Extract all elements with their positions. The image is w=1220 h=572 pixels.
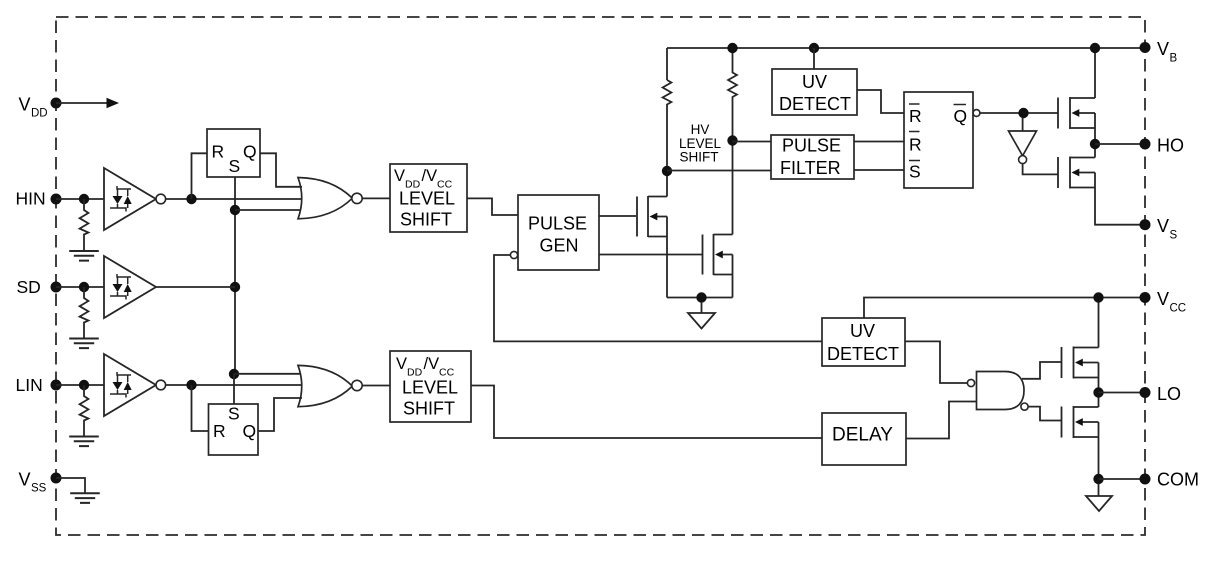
svg-text:DD: DD xyxy=(31,108,48,120)
wire M1 drain xyxy=(666,171,668,197)
op-amp input buffer HIN xyxy=(104,168,166,230)
svg-text:V: V xyxy=(1157,216,1169,236)
wire NOR1 bottom input xyxy=(235,209,301,211)
wire DELAY to NAND xyxy=(906,402,977,439)
wire LS2 to DELAY xyxy=(471,386,822,439)
transistor Q3 (HO high NMOS) xyxy=(1058,97,1095,129)
node trunk-SD junction xyxy=(230,282,240,292)
wire M2 source xyxy=(732,275,734,298)
node HIN buffer junction xyxy=(186,194,196,204)
resistor R1 (set level shift) xyxy=(663,80,672,171)
svg-text:SHIFT: SHIFT xyxy=(403,399,455,419)
svg-text:SD: SD xyxy=(17,277,41,297)
svg-text:HV: HV xyxy=(691,122,710,137)
ground LIN xyxy=(69,437,99,447)
gate NOR2 (LIN channel) xyxy=(298,365,362,406)
svg-text:PULSE: PULSE xyxy=(782,136,841,156)
node SD junction xyxy=(79,282,89,292)
svg-text:LIN: LIN xyxy=(16,375,43,395)
wire Q4 source to VS xyxy=(1095,188,1145,225)
node HO junction xyxy=(1090,139,1100,149)
svg-text:S: S xyxy=(1170,230,1178,242)
ground VSS xyxy=(70,493,100,503)
block LS2 VDD/VCC LEVEL SHIFT (low side) xyxy=(390,351,471,422)
svg-text:/V: /V xyxy=(424,355,440,373)
node COM pin xyxy=(1140,470,1200,490)
svg-text:LEVEL: LEVEL xyxy=(399,189,455,209)
node Qbar junction xyxy=(1018,108,1028,118)
wire PULSE FILTER R out xyxy=(854,141,904,143)
svg-text:GEN: GEN xyxy=(540,236,579,256)
wire SD buffer out xyxy=(156,286,235,288)
svg-text:V: V xyxy=(1157,289,1169,309)
wire HIN input xyxy=(56,198,104,200)
latch R1/S1 (RS latch upper) xyxy=(207,129,260,177)
svg-text:R: R xyxy=(212,142,225,162)
wire M2 drain xyxy=(732,141,734,235)
wire COM out xyxy=(1099,478,1146,480)
svg-text:SHIFT: SHIFT xyxy=(400,210,452,230)
svg-text:V: V xyxy=(396,355,407,373)
svg-text:R: R xyxy=(909,135,922,155)
wire LS1 to PULSE GEN xyxy=(467,198,518,215)
svg-text:Q: Q xyxy=(954,106,968,126)
svg-text:UV: UV xyxy=(850,321,875,341)
wire VCC rail xyxy=(864,298,1145,319)
svg-text:CC: CC xyxy=(1170,303,1187,315)
svg-text:B: B xyxy=(1170,53,1178,65)
wire Q3 source to HO xyxy=(1094,128,1096,144)
node COM junction xyxy=(1093,474,1103,484)
block PULSE FILTER xyxy=(771,135,854,179)
op-amp input buffer LIN xyxy=(104,354,166,416)
node VB-UV1 junction xyxy=(809,43,819,53)
latch R2/S2 (RS latch lower) xyxy=(209,404,259,456)
wire Q6 source to COM xyxy=(1098,437,1100,479)
node R2 bottom xyxy=(727,135,737,145)
flip-flop U4 (SR latch high side) xyxy=(904,92,980,188)
node SD pin xyxy=(17,277,62,297)
wire Q3 drain to VB xyxy=(1094,47,1096,98)
resistor HIN pulldown xyxy=(80,199,89,251)
resistor SD pulldown xyxy=(80,287,89,339)
block DELAY xyxy=(822,413,906,465)
wire UV2 to NAND xyxy=(905,341,967,383)
node HO pin xyxy=(1140,136,1185,156)
svg-text:/V: /V xyxy=(422,167,438,185)
svg-text:V: V xyxy=(19,95,31,115)
resistor R2 (reset level shift) xyxy=(728,48,737,141)
wire NOR1 out xyxy=(362,197,390,199)
transistor Q6 (LO low NMOS) xyxy=(1062,406,1099,438)
transistor M2 (reset pulse NMOS) xyxy=(703,234,733,275)
svg-text:R: R xyxy=(213,421,226,441)
wire NAND out low (bubbled) xyxy=(1028,407,1061,421)
node VSS pin xyxy=(19,470,62,495)
wire HO out xyxy=(1095,143,1145,145)
wire VB rail xyxy=(667,48,1145,80)
svg-text:SHIFT: SHIFT xyxy=(680,150,719,165)
svg-text:V: V xyxy=(19,470,31,490)
svg-text:FILTER: FILTER xyxy=(780,158,841,178)
ground SD xyxy=(69,339,99,349)
node LIN junction xyxy=(79,380,89,390)
svg-text:HIN: HIN xyxy=(16,189,46,209)
svg-text:R: R xyxy=(909,106,922,126)
gate NAND (LO driver logic) xyxy=(967,372,1028,411)
node HIN pin xyxy=(16,189,62,209)
svg-text:UV: UV xyxy=(802,72,827,92)
wire NAND out high xyxy=(1022,362,1062,379)
svg-text:COM: COM xyxy=(1157,470,1199,490)
wire Q6 drain to LO xyxy=(1098,393,1100,408)
block PULSE GEN xyxy=(518,195,599,270)
wire VDD arrow xyxy=(56,98,119,108)
svg-text:S: S xyxy=(229,156,241,176)
transistor Q5 (LO high NMOS) xyxy=(1062,347,1099,379)
wire HV source rail xyxy=(667,297,733,299)
ground COM xyxy=(1086,484,1112,511)
node VS pin xyxy=(1140,216,1178,242)
wire NOR2 top input xyxy=(234,373,301,375)
node VB-Q3 junction xyxy=(1090,43,1100,53)
wire PULSE GEN inhibit (bubbled) xyxy=(494,251,822,341)
node HV ground tap xyxy=(696,292,706,302)
svg-text:LEVEL: LEVEL xyxy=(402,378,458,398)
node LIN buffer junction xyxy=(186,380,196,390)
svg-text:S: S xyxy=(228,404,240,424)
svg-text:HO: HO xyxy=(1157,136,1184,156)
wire Q5 source to LO xyxy=(1098,378,1100,393)
svg-text:Q: Q xyxy=(243,142,257,162)
node R1 bottom xyxy=(662,166,672,176)
wire Qbar to HO driver xyxy=(980,112,1058,114)
wire PULSE FILTER S out xyxy=(854,169,904,171)
wire latch1 R input xyxy=(192,153,208,199)
node trunk-NOR1 tap xyxy=(230,205,240,215)
wire latch2 R input xyxy=(192,385,209,431)
wire Q5 drain to VCC xyxy=(1098,298,1100,348)
transistor M1 (set pulse NMOS) xyxy=(637,196,667,237)
wire PULSE GEN out set xyxy=(599,215,636,217)
gate NOR1 (HIN channel) xyxy=(298,178,362,219)
node LO pin xyxy=(1140,384,1182,404)
svg-text:DELAY: DELAY xyxy=(832,425,893,446)
ground HIN xyxy=(69,251,99,261)
wire latch2 Q to NOR2 xyxy=(258,398,302,431)
node LIN pin xyxy=(16,375,62,395)
transistor Q4 (HO low NMOS) xyxy=(1058,157,1095,189)
wire R line to PULSE FILTER xyxy=(733,141,772,143)
wire Q4 drain to HO xyxy=(1094,144,1096,158)
wire LIN input xyxy=(56,384,104,386)
node HIN junction xyxy=(79,194,89,204)
svg-text:SS: SS xyxy=(31,483,47,495)
wire LIN buffer out xyxy=(166,384,302,386)
wire LO out xyxy=(1099,392,1146,394)
node VB-R2 junction xyxy=(727,43,737,53)
block UV DETECT (low side) xyxy=(822,318,905,366)
resistor LIN pulldown xyxy=(80,385,89,437)
wire UV1 supply tap xyxy=(813,48,815,69)
node VCC pin xyxy=(1140,289,1187,315)
block UV DETECT (high side) xyxy=(772,69,857,115)
svg-text:LO: LO xyxy=(1157,384,1181,404)
wire S line to PULSE FILTER xyxy=(667,170,771,172)
wire NOR2 out xyxy=(362,385,390,387)
ground HV (substrate) xyxy=(688,302,715,329)
svg-text:S: S xyxy=(909,162,921,182)
block LS1 VDD/VCC LEVEL SHIFT (high side) xyxy=(390,164,467,232)
wire UV1 to latch Rbar xyxy=(857,90,904,113)
wire SD input xyxy=(56,286,104,288)
svg-text:Q: Q xyxy=(243,421,257,441)
svg-text:V: V xyxy=(1157,39,1169,59)
wire latch1 S to trunk xyxy=(234,177,236,210)
wire PULSE GEN out reset xyxy=(599,254,702,256)
wire M1 source xyxy=(666,237,668,298)
svg-text:DETECT: DETECT xyxy=(779,94,851,114)
svg-text:PULSE: PULSE xyxy=(528,214,587,234)
wire SD trunk xyxy=(234,210,236,374)
svg-text:DETECT: DETECT xyxy=(827,344,899,364)
wire latch2 S from trunk xyxy=(233,374,235,404)
node trunk-LIN tap xyxy=(229,369,239,379)
label HV LEVEL SHIFT xyxy=(679,122,722,165)
op-amp input buffer SD xyxy=(104,256,156,318)
node LO junction xyxy=(1093,387,1103,397)
wire HIN buffer out xyxy=(166,198,301,200)
inverter U5 xyxy=(1009,118,1059,175)
node VCC-Q5 junction xyxy=(1093,292,1103,302)
wire latch1 Q to NOR1 xyxy=(260,153,302,187)
node VB pin xyxy=(1140,39,1178,65)
svg-text:V: V xyxy=(394,167,405,185)
wire VSS ground lead xyxy=(56,478,85,493)
node VDD pin xyxy=(19,95,62,120)
